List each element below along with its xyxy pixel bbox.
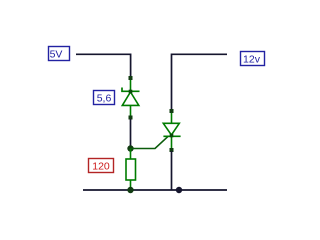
svg-text:5V: 5V [50,49,63,61]
junction cathode to rail [176,187,182,193]
wire thyristor cathode to ground rail [171,151,173,190]
svg-text:12v: 12v [243,54,261,66]
wire 12v rail to thyristor anode [172,54,228,110]
zener pin 2 [129,116,133,120]
power label 5V [49,47,70,61]
resistor R1 [126,149,136,191]
label 120 [89,159,114,173]
thyristor anode lead [171,111,173,123]
thyristor cathode bar [163,135,180,137]
zener triangle [122,92,139,105]
power label 12v [241,52,265,66]
ground rail wire [83,189,227,191]
wire zener anode to node A [130,119,132,148]
thyristor Q1 [163,109,180,152]
svg-text:5,6: 5,6 [97,93,112,105]
zener cathode bar with tick [122,88,140,92]
thyristor triangle [163,123,179,135]
gate wire node A to thyristor gate [131,136,169,148]
zener apex junction dot [129,90,133,94]
zener cathode lead [130,78,132,91]
thyristor pin anode [170,109,174,113]
resistor bottom lead [130,180,132,190]
wire 5V rail to zener [76,54,131,77]
thyristor cathode lead [171,136,173,150]
resistor top lead [130,149,132,160]
node A junction dot [127,145,133,151]
label 5,6 [94,91,115,105]
zener diode ZD1 value 5,6 [122,76,140,120]
resistor body [126,159,136,180]
junction resistor to rail [127,187,133,193]
zener anode lead [130,105,132,117]
thyristor apex junction dot [170,134,174,138]
svg-text:120: 120 [92,161,110,173]
thyristor pin cathode [170,148,174,152]
zener pin 1 [129,76,133,80]
